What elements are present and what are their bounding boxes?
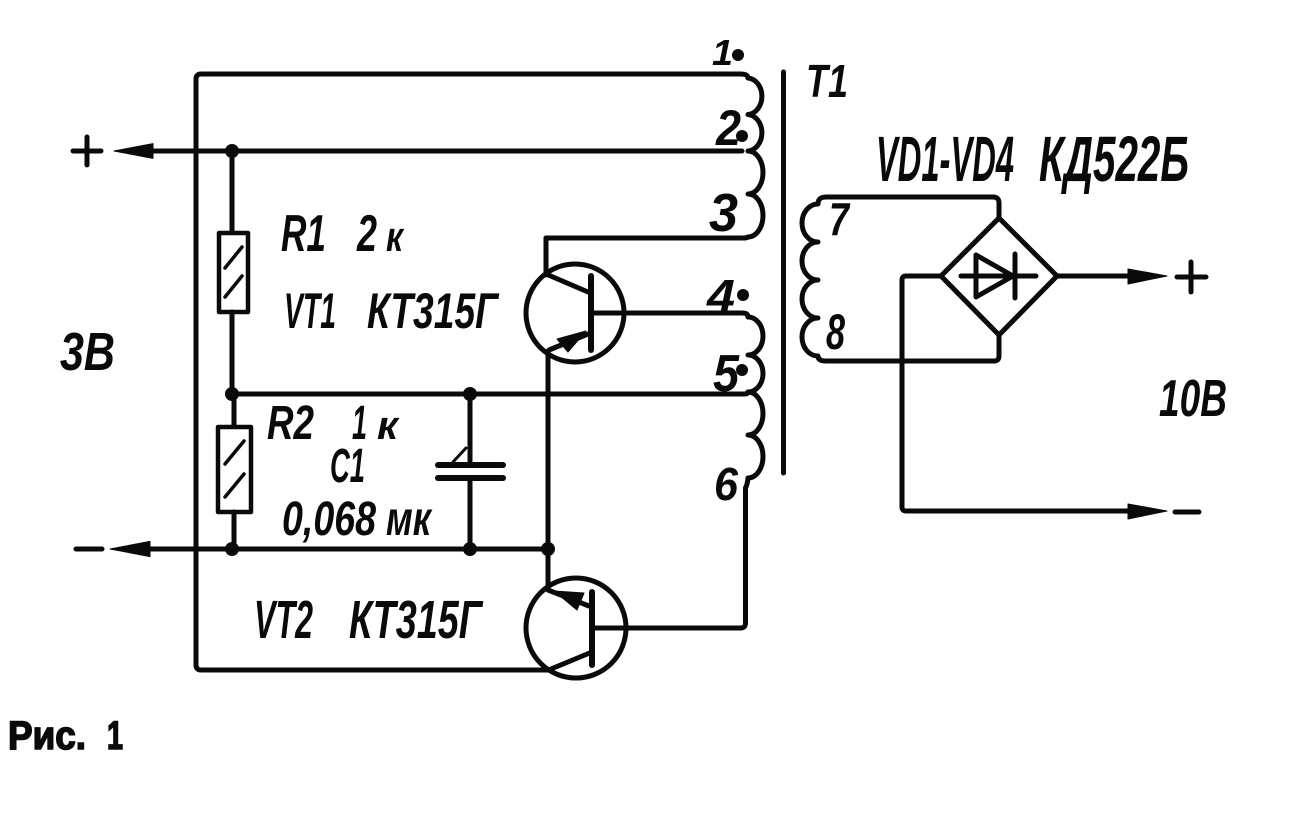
transformer T1 secondary winding 7-8 xyxy=(802,197,999,361)
wire: minus input rail xyxy=(150,547,548,552)
svg-text:КТ315Г: КТ315Г xyxy=(349,590,484,650)
node E junction dot C1 bottom xyxy=(463,542,477,556)
capacitor C1 xyxy=(468,394,473,464)
wire: winding 3 to VT1 collector xyxy=(546,237,748,238)
transformer T1 primary winding 4-5-6 xyxy=(746,317,764,488)
diode symbol inside bridge xyxy=(961,274,1036,279)
phasing dot winding 1 xyxy=(732,49,744,61)
wire: VT2 emitter up to minus node xyxy=(546,549,551,590)
svg-text:6: 6 xyxy=(714,458,738,510)
arrow: - output arrowhead xyxy=(1128,504,1167,519)
wire: VT1 emitter down to minus node xyxy=(546,351,551,549)
svg-text:8: 8 xyxy=(826,304,845,360)
node: - input terminal symbol xyxy=(76,547,102,552)
svg-text:к: к xyxy=(377,404,400,448)
wire: bridge plus corner to output xyxy=(1057,274,1135,279)
wire: VT2 base to winding 6 xyxy=(595,488,746,628)
svg-text:7: 7 xyxy=(829,193,851,245)
svg-text:4: 4 xyxy=(706,270,735,322)
wire: middle node to R2 xyxy=(232,394,237,427)
svg-text:мк: мк xyxy=(386,493,433,546)
node C junction dot C1 top xyxy=(463,387,477,401)
svg-text:VT1: VT1 xyxy=(284,283,336,339)
svg-text:1: 1 xyxy=(712,32,733,73)
svg-text:КД522Б: КД522Б xyxy=(1039,123,1189,195)
svg-text:к: к xyxy=(386,213,404,260)
node B junction dot R1/R2 xyxy=(225,387,239,401)
wire: middle rail (R1/R2/C1 node to winding terminal 5) xyxy=(232,392,748,394)
transformer T1 primary winding 1-2-3 xyxy=(740,74,763,237)
transformer T1 core xyxy=(781,72,786,473)
phasing dot winding 2 xyxy=(736,130,748,142)
svg-text:2: 2 xyxy=(715,100,741,156)
resistor R2 xyxy=(218,427,251,512)
phasing dot winding 5 xyxy=(736,364,748,376)
node: + output symbol xyxy=(1177,262,1206,292)
svg-text:VT2: VT2 xyxy=(254,590,313,650)
svg-text:Т1: Т1 xyxy=(806,55,848,107)
wire: bridge minus corner to output xyxy=(902,276,1135,511)
wire: VT1 collector up to winding 3 line xyxy=(544,238,549,275)
arrow: + output arrowhead xyxy=(1128,269,1167,284)
svg-text:3В: 3В xyxy=(60,322,115,382)
arrow: - input arrowhead xyxy=(110,541,150,556)
svg-text:1: 1 xyxy=(107,714,123,758)
svg-text:VD1-VD4: VD1-VD4 xyxy=(876,123,1014,195)
node: - output dash xyxy=(1175,510,1199,515)
svg-text:3: 3 xyxy=(709,183,738,243)
svg-text:10В: 10В xyxy=(1159,370,1227,428)
svg-text:Рис.: Рис. xyxy=(8,714,86,758)
node: + input terminal symbol xyxy=(73,137,101,165)
wire: + input rail to winding terminal 2 xyxy=(150,149,742,154)
diode bridge VD1-VD4 diamond xyxy=(941,218,1057,335)
svg-text:R2: R2 xyxy=(267,397,314,450)
svg-text:КТ315Г: КТ315Г xyxy=(367,283,500,339)
svg-text:С1: С1 xyxy=(330,440,365,493)
arrow: + input arrowhead xyxy=(114,144,153,159)
svg-text:5: 5 xyxy=(713,345,740,403)
svg-text:R1: R1 xyxy=(281,205,326,263)
transistor VT1 xyxy=(526,264,624,362)
svg-text:0,068: 0,068 xyxy=(282,493,376,546)
node D junction dot R2 bottom xyxy=(225,542,239,556)
wire: from + rail down to R1 xyxy=(230,151,235,233)
resistor R1 xyxy=(219,233,248,312)
wire: R1 bottom to middle node xyxy=(230,312,235,394)
wire: left frame with top line to winding 1 and bottom line to VT2 collector xyxy=(196,74,740,670)
transistor VT2 xyxy=(526,578,626,678)
svg-text:2: 2 xyxy=(356,205,377,263)
phasing dot winding 4 xyxy=(737,289,749,301)
wire: R2 bottom to minus rail xyxy=(232,512,237,549)
wire: VT1 base to winding 4 xyxy=(594,313,748,317)
node F junction dot emitters xyxy=(541,542,555,556)
node A junction dot on + rail xyxy=(225,144,239,158)
